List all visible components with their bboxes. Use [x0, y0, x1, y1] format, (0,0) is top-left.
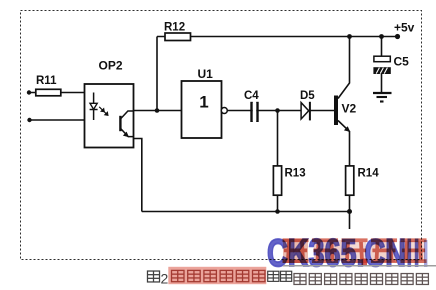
svg-text:V2: V2	[342, 102, 357, 116]
svg-text:OP2: OP2	[99, 59, 123, 73]
svg-text:D5: D5	[300, 90, 315, 102]
svg-text:CK365.CN: CK365.CN	[267, 232, 406, 275]
svg-text:R11: R11	[36, 75, 57, 87]
svg-text:R12: R12	[164, 22, 185, 34]
svg-text:+5v: +5v	[394, 21, 415, 35]
svg-text:C4: C4	[244, 90, 259, 102]
svg-text:R13: R13	[285, 168, 306, 180]
svg-text:U1: U1	[198, 67, 214, 81]
svg-text:R14: R14	[358, 168, 380, 180]
svg-text:2: 2	[161, 271, 169, 287]
svg-text:1: 1	[199, 93, 208, 112]
svg-text:C5: C5	[394, 55, 410, 69]
